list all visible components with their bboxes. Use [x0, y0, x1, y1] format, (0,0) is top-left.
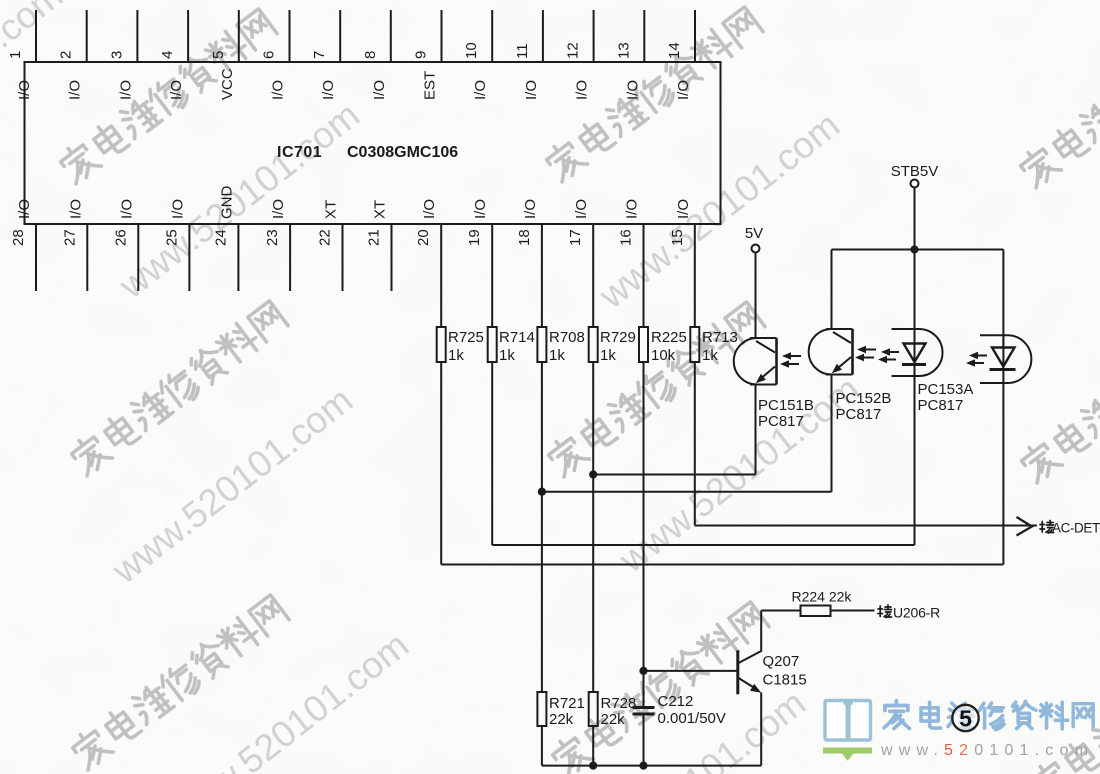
pin 10 lead	[491, 10, 493, 62]
svg-text:3: 3	[108, 51, 125, 59]
PC151B emitter arrowhead	[756, 374, 766, 383]
svg-text:I/O: I/O	[472, 80, 489, 100]
svg-text:I/O: I/O	[371, 80, 388, 100]
svg-text:C0308GMC106: C0308GMC106	[347, 144, 458, 161]
PC153A light arrow upper	[881, 348, 899, 356]
top pin numbers	[7, 42, 683, 59]
pin 2 lead	[86, 10, 88, 62]
svg-text:R729: R729	[600, 329, 636, 346]
pin 26 lead	[137, 224, 139, 291]
pin 8 lead	[390, 10, 392, 62]
svg-text:9: 9	[413, 51, 430, 59]
wire PC153A cathode down	[914, 365, 916, 546]
svg-text:24: 24	[212, 229, 229, 246]
junction base node	[639, 667, 647, 675]
PC154 LED triangle	[992, 348, 1015, 367]
svg-text:13: 13	[615, 42, 632, 59]
pin 22 lead	[342, 224, 344, 291]
top pin function labels	[16, 68, 692, 100]
svg-text:12: 12	[565, 42, 582, 59]
pin 9 lead	[441, 10, 443, 62]
watermark run F 家电维修资料网 top-middle	[542, 5, 764, 185]
capacitor C212 bottom plate	[633, 713, 655, 716]
pin 5 lead	[238, 10, 240, 62]
svg-text:R225: R225	[651, 329, 687, 346]
wire pin18 column to R721	[541, 362, 543, 692]
接U206-R label	[878, 605, 940, 621]
PC153A light arrow lower	[878, 356, 896, 364]
capacitor C212 top plate	[633, 706, 655, 709]
pin 24 lead	[237, 224, 239, 291]
svg-text:U206-R: U206-R	[893, 605, 940, 621]
R713 value label	[702, 329, 738, 364]
wire STB5V vertical	[914, 188, 916, 250]
pin 12 lead	[593, 10, 595, 62]
PC154 package outline	[980, 335, 1031, 383]
svg-text:I/O: I/O	[270, 80, 287, 100]
svg-text:10k: 10k	[651, 347, 676, 364]
svg-text:16: 16	[618, 229, 635, 246]
pin 28 lead	[35, 224, 37, 291]
PC151B base bar	[775, 338, 778, 385]
resistor R721	[537, 692, 546, 726]
resistor R713	[690, 327, 699, 362]
wire rail to PC153A anode	[914, 250, 916, 345]
R728 label	[601, 695, 637, 728]
svg-text:1k: 1k	[600, 347, 616, 364]
svg-text:I/O: I/O	[522, 199, 539, 219]
svg-text:R713: R713	[702, 329, 738, 346]
svg-text:I/O: I/O	[67, 80, 84, 100]
R708 value label	[549, 329, 585, 364]
svg-text:22: 22	[317, 229, 334, 246]
resistor R224	[801, 606, 831, 617]
svg-text:C212: C212	[658, 693, 694, 710]
wire pin 15 column upper	[694, 224, 696, 327]
resistor R725	[437, 327, 446, 362]
svg-text:XT: XT	[323, 200, 340, 219]
wire pin 20 column upper	[440, 224, 442, 327]
junction rail C212	[639, 762, 647, 770]
wire PC153A through symbol	[914, 329, 916, 365]
PC151B label	[758, 397, 814, 430]
pin 13 lead	[643, 10, 645, 62]
PC151B collector stroke	[756, 341, 775, 353]
wire pin20 column lower	[440, 362, 442, 565]
watermark run I 家电维修资料网 mid-right clipped	[1017, 306, 1100, 486]
pin 6 lead	[289, 10, 291, 62]
svg-text:www.520101.com: www.520101.com	[880, 742, 1094, 759]
wire PC151B emitter down	[755, 385, 757, 475]
wire Q207 collector to R224	[761, 610, 800, 612]
Q207 emitter wire down	[760, 693, 762, 766]
svg-text:PC153A: PC153A	[918, 381, 974, 398]
svg-text:I/O: I/O	[675, 199, 692, 219]
svg-text:I/O: I/O	[574, 80, 591, 100]
svg-text:PC817: PC817	[918, 397, 964, 414]
svg-text:23: 23	[264, 229, 281, 246]
PC152B light arrow upper	[857, 346, 876, 354]
PC153A package outline	[892, 329, 943, 376]
wire pin17 to PC151B emitter	[593, 474, 755, 476]
wire pin19 to PC153A cathode	[492, 544, 914, 546]
logo book spine	[844, 702, 853, 741]
pin 27 lead	[86, 224, 88, 291]
R225 value label	[651, 329, 687, 364]
svg-text:R224 22k: R224 22k	[792, 589, 853, 605]
logo book green base	[823, 748, 872, 761]
svg-text:I/O: I/O	[675, 80, 692, 100]
svg-text:I/O: I/O	[624, 80, 641, 100]
svg-text:26: 26	[112, 229, 129, 246]
svg-text:I/O: I/O	[421, 199, 438, 219]
pin 11 lead	[542, 10, 544, 62]
svg-text:STB5V: STB5V	[891, 163, 939, 180]
logo book icon outer frame	[825, 701, 871, 741]
watermark run BR 家电维修资料网 bottom-right clipped	[1028, 625, 1100, 774]
Q207 emitter arrowhead	[750, 684, 761, 693]
svg-text:I/O: I/O	[169, 199, 186, 219]
pin 3 lead	[136, 10, 138, 62]
svg-text:XT: XT	[372, 200, 389, 219]
svg-text:6: 6	[261, 51, 278, 59]
watermark run M 家电维修资料网 mid-center	[544, 300, 766, 480]
svg-text:14: 14	[666, 42, 683, 59]
svg-text:R708: R708	[549, 329, 585, 346]
pin 1 lead	[35, 10, 37, 62]
Q207 emitter stroke	[739, 678, 758, 690]
svg-text:11: 11	[514, 43, 531, 59]
PC152B package outline	[809, 329, 853, 375]
pin 4 lead	[187, 10, 189, 62]
PC152B label	[836, 390, 892, 423]
logo text 家电维修资料网	[884, 701, 1093, 730]
svg-text:PC817: PC817	[758, 413, 804, 430]
pin 25 lead	[188, 224, 190, 291]
wire 5V to PC151B collector	[755, 253, 757, 339]
top pin leads 1-14	[36, 10, 695, 62]
PC153A label	[918, 381, 974, 414]
svg-text:5V: 5V	[745, 225, 763, 242]
PC152B emitter stroke	[835, 357, 851, 371]
bottom pin function labels	[16, 186, 692, 220]
junction pin18 node	[538, 488, 546, 496]
wire STB5V rail horizontal	[832, 249, 1004, 251]
R714 value label	[499, 329, 535, 364]
svg-text:R725: R725	[448, 329, 484, 346]
wire pin 17 column upper	[592, 224, 594, 327]
watermark run E 家电维修资料网 bottom-left	[68, 593, 290, 773]
PC152B light arrow lower	[855, 354, 874, 362]
resistor R729	[589, 327, 598, 362]
C212 label	[658, 693, 726, 727]
wire pin19 column lower	[491, 362, 493, 545]
pin 21 lead	[391, 224, 393, 291]
svg-text:I/O: I/O	[523, 80, 540, 100]
svg-text:R714: R714	[499, 329, 535, 346]
svg-text:C1815: C1815	[763, 672, 807, 689]
svg-text:PC151B: PC151B	[758, 397, 814, 414]
Q207 collector stroke	[739, 651, 762, 663]
Q207 base bar	[736, 650, 739, 694]
PC151B package outline	[734, 338, 777, 385]
svg-text:4: 4	[159, 51, 176, 59]
svg-text:I/O: I/O	[16, 80, 33, 100]
wire pin16 column to C212	[643, 362, 645, 706]
svg-text:1: 1	[7, 51, 24, 59]
PC152B base bar	[851, 329, 854, 375]
svg-text:I/O: I/O	[624, 199, 641, 219]
svg-text:PC817: PC817	[836, 406, 882, 423]
wire base node to Q207	[644, 670, 738, 672]
svg-text:19: 19	[466, 229, 483, 246]
svg-text:1k: 1k	[499, 347, 515, 364]
wire PC152B emitter down	[831, 375, 833, 492]
5V terminal	[752, 245, 760, 253]
Q207 collector wire up	[760, 611, 762, 652]
wire emitter ground rail	[542, 765, 761, 767]
svg-text:I/O: I/O	[270, 199, 287, 219]
R721 label	[549, 695, 585, 728]
PC154 cathode bar	[990, 368, 1016, 371]
svg-text:I/O: I/O	[168, 80, 185, 100]
svg-text:GND: GND	[218, 186, 235, 220]
resistor R708	[537, 327, 546, 362]
svg-text:AC-DET: AC-DET	[1052, 521, 1100, 536]
wire rail to PC154 anode	[1002, 250, 1004, 349]
junction STB5V node	[910, 245, 918, 253]
svg-text:22k: 22k	[601, 711, 626, 728]
PC152B emitter arrowhead	[832, 364, 842, 373]
svg-text:IC701: IC701	[277, 144, 322, 161]
wire pin 18 column upper	[541, 224, 543, 327]
svg-text:2: 2	[58, 51, 75, 59]
watermark run H 家电维修资料网 top-right clipped	[1016, 11, 1100, 191]
svg-text:15: 15	[669, 229, 686, 246]
pin 7 lead	[339, 10, 341, 62]
wire pin18 to PC152B emitter	[542, 491, 832, 493]
svg-text:PC152B: PC152B	[836, 390, 892, 407]
PC154 light arrow lower	[966, 359, 984, 367]
svg-text:I/O: I/O	[472, 199, 489, 219]
svg-text:I/O: I/O	[16, 199, 33, 219]
junction rail R728	[589, 762, 597, 770]
svg-text:R721: R721	[549, 695, 585, 712]
wire AC-DET net	[695, 525, 1037, 527]
wire R721 down	[541, 726, 543, 766]
svg-text:I/O: I/O	[573, 199, 590, 219]
svg-text:5: 5	[959, 706, 972, 732]
svg-text:8: 8	[362, 51, 379, 59]
wire R224 to U206-R	[831, 610, 875, 612]
PC153A LED triangle	[904, 344, 926, 363]
resistor R728	[589, 692, 598, 726]
PC151B light arrow upper	[782, 352, 801, 360]
svg-text:I/O: I/O	[320, 80, 337, 100]
svg-text:I/O: I/O	[67, 199, 84, 219]
wire R728 down	[592, 726, 594, 766]
R725 value label	[448, 329, 484, 364]
pin 23 lead	[289, 224, 291, 291]
svg-text:22k: 22k	[549, 711, 574, 728]
wire rail to PC152B collector	[831, 250, 833, 330]
junction pin17 node	[589, 470, 597, 478]
resistor R225	[639, 327, 648, 362]
接AC-DET label	[1040, 521, 1100, 536]
svg-text:0.001/50V: 0.001/50V	[658, 710, 726, 727]
Q207 label	[763, 653, 807, 689]
PC151B light arrow lower	[780, 360, 799, 368]
svg-text:Q207: Q207	[763, 653, 800, 670]
wire C212 down	[643, 714, 645, 766]
circled 5	[952, 705, 978, 731]
wire pin 19 column upper	[491, 224, 493, 327]
svg-text:10: 10	[463, 42, 480, 59]
PC153A cathode bar	[902, 363, 926, 366]
R729 value label	[600, 329, 636, 364]
wire pin15 column lower	[694, 362, 696, 526]
svg-text:I/O: I/O	[117, 80, 134, 100]
resistor R714	[488, 327, 497, 362]
svg-text:R728: R728	[601, 695, 637, 712]
wire PC154 through symbol	[1002, 335, 1004, 369]
STB5V terminal	[911, 180, 919, 188]
svg-text:17: 17	[567, 229, 584, 246]
wire pin20 to PC154 cathode	[441, 564, 1003, 566]
svg-text:18: 18	[516, 229, 533, 246]
wire pin17 column to R728	[592, 362, 594, 692]
wire pin 16 column upper	[643, 224, 645, 327]
svg-text:EST: EST	[422, 71, 439, 100]
svg-text:1k: 1k	[448, 347, 464, 364]
watermark run C 家电维修资料网 mid-left	[67, 299, 289, 479]
AC-DET arrowhead	[1017, 517, 1033, 536]
svg-text:21: 21	[366, 229, 383, 246]
svg-text:25: 25	[163, 229, 180, 246]
svg-text:I/O: I/O	[118, 199, 135, 219]
bottom pin numbers	[10, 229, 686, 246]
svg-text:7: 7	[311, 51, 328, 59]
wire PC154 cathode down	[1002, 370, 1004, 565]
svg-text:1k: 1k	[702, 347, 718, 364]
svg-text:VCC: VCC	[219, 68, 236, 100]
bottom pin stub leads 28-21	[36, 224, 392, 291]
svg-text:20: 20	[415, 229, 432, 246]
PC154 light arrow upper	[969, 352, 987, 360]
IC701 body	[25, 62, 721, 224]
watermark run K 家电维修资料网 bottom-middle	[548, 600, 770, 774]
svg-text:27: 27	[61, 229, 78, 246]
watermark run A 家电维修资料网 top-left	[56, 7, 278, 187]
svg-text:5: 5	[210, 51, 227, 59]
svg-text:1k: 1k	[549, 347, 565, 364]
svg-text:28: 28	[10, 229, 27, 246]
pin 14 lead	[694, 10, 696, 62]
PC151B emitter stroke	[759, 367, 775, 381]
PC152B collector stroke	[833, 332, 851, 343]
